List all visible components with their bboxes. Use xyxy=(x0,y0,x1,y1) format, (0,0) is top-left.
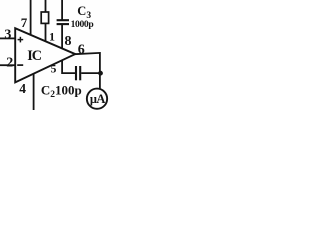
plus sign non-inverting input xyxy=(18,39,24,41)
minus sign inverting input xyxy=(17,64,23,66)
svg-text:2: 2 xyxy=(6,56,13,71)
svg-text:IC: IC xyxy=(27,48,41,64)
svg-text:8: 8 xyxy=(65,34,72,49)
svg-text:7: 7 xyxy=(21,15,28,30)
svg-text:1000p: 1000p xyxy=(71,19,94,30)
capacitor C2 plates xyxy=(75,66,77,80)
node junction dot xyxy=(98,71,103,76)
capacitor C3 plates xyxy=(57,19,69,21)
svg-text:6: 6 xyxy=(78,42,85,57)
wire C2 right lead to junction xyxy=(81,72,99,74)
meter M1 microammeter circle xyxy=(87,89,107,109)
svg-text:C2100p: C2100p xyxy=(41,82,82,99)
svg-text:μA: μA xyxy=(90,92,105,106)
wire pin 3 input xyxy=(0,37,16,39)
wire resistor bottom lead to pin 1 xyxy=(45,23,47,41)
svg-text:3: 3 xyxy=(4,28,11,43)
wire capacitor C3 top lead xyxy=(61,0,63,20)
wire resistor top lead xyxy=(45,0,47,12)
wire pin 4 to bottom xyxy=(33,74,35,110)
svg-text:4: 4 xyxy=(19,81,26,96)
svg-text:1: 1 xyxy=(49,30,55,44)
op-amp U1 triangle xyxy=(15,28,75,82)
wire pin 5 elbow down and right xyxy=(62,60,75,73)
wire pin 7 xyxy=(30,0,32,35)
wire pin 2 input xyxy=(0,64,16,66)
wire capacitor C3 bottom lead to pin 8 xyxy=(61,25,63,49)
resistor R1 body xyxy=(41,12,48,23)
wire output from apex to right corner and down to junction xyxy=(75,53,100,89)
svg-text:5: 5 xyxy=(51,64,57,76)
